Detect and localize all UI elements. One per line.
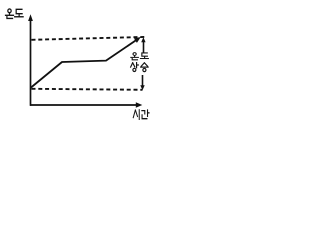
temperature vs time graph (scanned textbook figure) (0, 0, 158, 128)
label 시간 (x-axis, bottom-right) (133, 110, 139, 120)
annotation down arrow (142, 75, 144, 86)
annotation text 상승 (131, 63, 139, 72)
top dashed line (32, 37, 147, 40)
x-axis arrowhead (136, 102, 143, 107)
curve arrowhead (134, 37, 141, 43)
annotation text 온도 (131, 53, 138, 60)
lower dashed line (32, 89, 143, 90)
annotation up arrow (143, 41, 145, 53)
temperature curve (31, 39, 138, 88)
y axis (30, 20, 32, 106)
y-axis arrowhead (28, 14, 33, 21)
x axis (30, 104, 137, 106)
label 온도 (y-axis, top-left) (6, 9, 14, 19)
